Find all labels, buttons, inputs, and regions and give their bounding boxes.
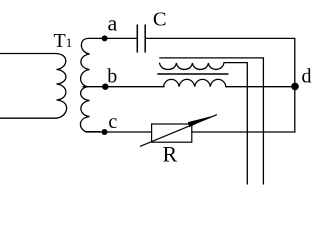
- node d junction dot: [291, 83, 299, 91]
- svg-text:d: d: [302, 65, 312, 87]
- resistor R arrowhead: [188, 116, 212, 127]
- resistor R arrow diagonal: [141, 115, 217, 146]
- wire capacitor to right, down right side, back to resistor (outer loop): [146, 38, 295, 132]
- svg-text:b: b: [107, 65, 117, 87]
- resistor R box: [152, 124, 192, 142]
- node c junction dot: [102, 129, 108, 135]
- wire node b to coupled coil: [83, 86, 164, 88]
- svg-text:c: c: [108, 111, 117, 133]
- wire node c to resistor R: [86, 131, 152, 133]
- transformer T1 secondary winding (tapped a,b,c): [81, 38, 100, 86]
- node b junction dot: [102, 84, 108, 90]
- node a junction dot: [102, 35, 108, 41]
- svg-text:T1: T1: [54, 30, 73, 52]
- svg-text:C: C: [153, 9, 167, 31]
- coupled-coil top winding: [160, 63, 248, 184]
- coupled-coil bottom winding: [164, 79, 226, 86]
- transformer T1 primary winding with leads: [0, 54, 67, 119]
- capacitor C right plate: [144, 25, 146, 52]
- wire coil to node d: [226, 86, 295, 88]
- coupled-coil core line: [158, 73, 228, 75]
- svg-text:R: R: [163, 142, 178, 167]
- svg-text:a: a: [108, 11, 118, 36]
- coupled-coil top lead wire going to output terminal: [160, 58, 264, 184]
- capacitor C left plate: [136, 25, 138, 52]
- wire node a to capacitor: [100, 37, 137, 39]
